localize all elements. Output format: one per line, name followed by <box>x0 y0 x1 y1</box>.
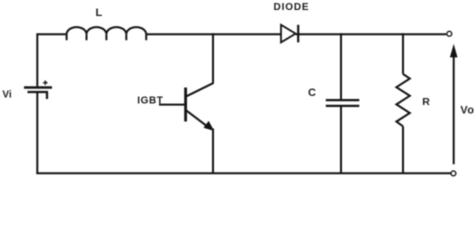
svg-text:L: L <box>96 7 103 19</box>
svg-text:R: R <box>422 96 430 108</box>
svg-text:DIODE: DIODE <box>274 2 310 13</box>
svg-text:IGBT: IGBT <box>137 95 163 106</box>
svg-text:Vo: Vo <box>460 105 474 117</box>
svg-text:C: C <box>308 87 316 99</box>
svg-text:Vi: Vi <box>2 90 11 101</box>
